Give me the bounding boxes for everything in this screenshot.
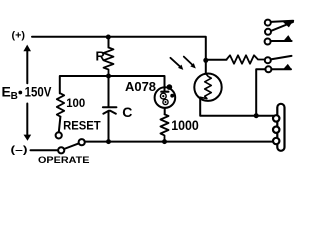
switch pivot circle B [79, 139, 85, 145]
svg-text:1000: 1000 [171, 117, 199, 133]
svg-text:E: E [2, 84, 11, 100]
contact T5 line [271, 68, 291, 70]
switch contact circle reset [56, 132, 62, 138]
junction coil wire [254, 113, 259, 118]
svg-text:150V: 150V [25, 84, 52, 100]
photocell element zigzag [200, 74, 211, 99]
svg-text:OPERATE: OPERATE [38, 155, 90, 163]
wire mid horizontal (100/R/C to tube) [60, 76, 165, 93]
relay coil loop 1 [273, 115, 279, 121]
tube cathode lead [164, 108, 166, 114]
contact T3 terminal [265, 39, 271, 45]
battery EB negative arrow [26, 104, 28, 136]
tube U1 envelope [155, 87, 176, 108]
battery EB positive arrow [26, 51, 28, 84]
resistor R top lead [108, 37, 110, 48]
contact T2 terminal [265, 29, 271, 35]
svg-text:RESET: RESET [63, 119, 101, 133]
contact T4 arm [271, 56, 292, 60]
relay coil loop 3 [273, 138, 279, 144]
wire 100 bottom lead [59, 117, 61, 133]
relay coil loop 2 [273, 127, 279, 133]
resistor R [104, 48, 114, 77]
node at photocell top [203, 58, 208, 63]
bottom rail [85, 141, 278, 143]
contact T2 arm [271, 22, 293, 31]
contact T1 wedge [283, 20, 294, 27]
tube electrode dot right [170, 94, 174, 98]
capacitor bottom lead [108, 111, 110, 141]
svg-text:(–): (–) [11, 144, 28, 156]
resistor series (horizontal) [227, 55, 265, 63]
switch blade [64, 143, 79, 149]
relay coil K1 body [277, 104, 284, 151]
contact T3 line [271, 40, 292, 42]
contact T3 wedge [284, 35, 292, 41]
photocell bottom wire to coil [200, 98, 277, 116]
contact T5 terminal [265, 66, 271, 72]
capacitor C [103, 106, 117, 108]
wire node to series resistor [206, 59, 227, 61]
light arrow 2 [184, 57, 192, 65]
contact T5 wedge [284, 64, 292, 69]
junction mid wire [106, 74, 111, 79]
tube anode bar [161, 91, 168, 93]
contact T4 terminal [265, 57, 271, 63]
svg-text:(+): (+) [12, 30, 26, 42]
light arrow 1 [170, 58, 179, 66]
tube electrode circle upper [160, 93, 166, 99]
junction 1000 bottom [162, 139, 167, 144]
tube gas dot on rim [167, 84, 173, 90]
wire T5 to coil junction [256, 69, 265, 115]
contact T1 terminal [265, 20, 271, 26]
capacitor C top lead [108, 76, 110, 107]
contact T1 line [271, 21, 293, 22]
photocell envelope [194, 74, 221, 101]
junction C bottom [106, 139, 111, 144]
wire (-) to operate switch [31, 149, 58, 151]
wire (+) top rail [32, 37, 206, 61]
svg-text:R: R [96, 48, 106, 63]
svg-text:A078: A078 [125, 79, 156, 94]
photocell top lead [205, 60, 207, 74]
switch contact circle A (operate) [58, 147, 64, 153]
svg-text:100: 100 [66, 96, 85, 110]
junction R top [106, 35, 111, 40]
svg-text:C: C [122, 104, 132, 120]
svg-text:B: B [11, 91, 18, 102]
tube electrode circle lower [163, 99, 168, 104]
resistor 1000 [161, 114, 169, 141]
resistor 100 [57, 93, 64, 116]
